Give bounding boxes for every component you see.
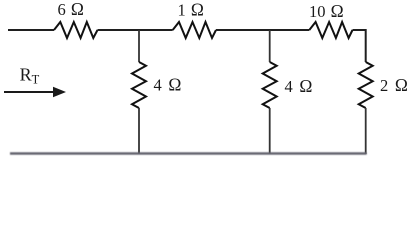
- wire: top left segment: [8, 29, 54, 31]
- svg-text:2 Ω: 2 Ω: [380, 75, 408, 95]
- resistor R4 4 ohm (first shunt): [132, 62, 146, 108]
- node B vertical wire upper: [269, 30, 271, 62]
- resistor R2 1 ohm: [173, 22, 216, 38]
- wire: between R1 and node A: [98, 29, 173, 31]
- wire: between R2 and node B: [216, 29, 309, 31]
- svg-text:1 Ω: 1 Ω: [178, 0, 204, 19]
- node A vertical wire upper: [138, 30, 140, 62]
- wire: node A vertical lower: [138, 108, 140, 154]
- wire: node B vertical lower: [269, 108, 271, 154]
- svg-text:4 Ω: 4 Ω: [154, 75, 182, 95]
- svg-text:10 Ω: 10 Ω: [309, 1, 344, 21]
- resistor R3 10 ohm: [309, 22, 352, 38]
- resistor R1 6 ohm: [54, 22, 98, 38]
- resistor R5 4 ohm (second shunt): [263, 62, 277, 108]
- svg-text:4 Ω: 4 Ω: [285, 76, 313, 96]
- resistor R6 2 ohm (right shunt): [359, 62, 373, 108]
- svg-text:RT: RT: [20, 65, 40, 87]
- svg-text:6 Ω: 6 Ω: [58, 0, 84, 19]
- wire: top right corner down: [353, 30, 366, 62]
- wire: right vertical lower: [365, 108, 367, 154]
- arrow for RT: [4, 91, 56, 93]
- wire: bottom bus: [10, 152, 367, 155]
